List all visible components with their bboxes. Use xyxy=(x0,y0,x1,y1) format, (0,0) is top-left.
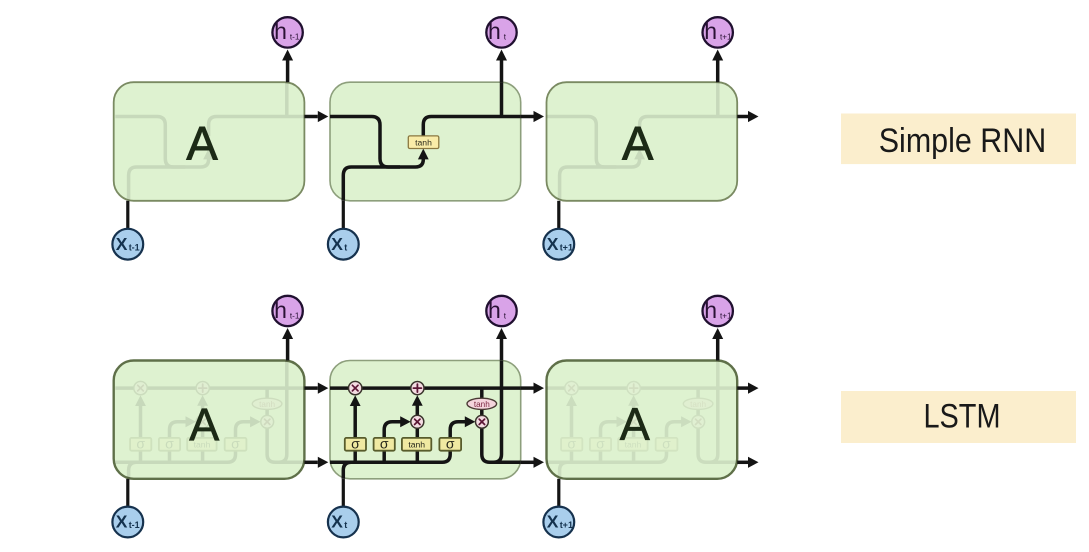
svg-text:t-1: t-1 xyxy=(129,242,140,252)
arrow cell1 to cell2 (top row) xyxy=(304,115,317,119)
svg-text:Simple RNN: Simple RNN xyxy=(879,122,1047,160)
arrow up to h(t-1) top xyxy=(286,61,290,83)
RNN interior wires and tanh unit xyxy=(330,82,521,201)
faded RNN wires inside right cell xyxy=(546,82,737,201)
svg-text:t-1: t-1 xyxy=(290,33,300,42)
svg-text:X: X xyxy=(547,234,559,254)
node h(t) bottom xyxy=(486,296,516,326)
svg-text:X: X xyxy=(547,512,559,532)
node h(t+1) top xyxy=(703,17,733,47)
svg-text:X: X xyxy=(331,512,343,532)
svg-text:t+1: t+1 xyxy=(560,242,573,252)
svg-text:A: A xyxy=(186,116,218,169)
svg-text:t-1: t-1 xyxy=(290,311,300,320)
faded LSTM interior inside right cell xyxy=(546,361,737,479)
arrow up to h(t+1) bottom xyxy=(716,339,720,361)
wire x(t-1) to cell bottom xyxy=(126,479,129,507)
svg-text:h: h xyxy=(274,297,287,323)
hidden-state arrow cell2 to cell3 xyxy=(521,461,534,465)
svg-text:t: t xyxy=(344,242,347,252)
node h(t-1) top xyxy=(272,17,302,47)
node x(t+1) top xyxy=(543,229,574,260)
node x(t-1) bottom xyxy=(112,507,143,538)
RNN cell box A (t-1) xyxy=(114,82,305,201)
LSTM cell box A (t+1) xyxy=(547,361,738,479)
arrow up to h(t) top xyxy=(500,61,504,83)
wire x(t+1) to cell bottom xyxy=(557,479,560,507)
svg-text:h: h xyxy=(274,18,287,44)
node x(t) bottom xyxy=(328,507,359,538)
svg-text:X: X xyxy=(331,234,343,254)
svg-text:t+1: t+1 xyxy=(560,520,573,530)
node x(t) top xyxy=(328,229,359,260)
node x(t+1) bottom xyxy=(543,507,574,538)
LSTM cell box A (t-1) xyxy=(114,361,305,479)
svg-text:t-1: t-1 xyxy=(129,520,140,530)
svg-text:A: A xyxy=(189,399,219,450)
wire x(t+1) to cell top xyxy=(557,201,560,229)
Simple RNN caption box xyxy=(841,114,1076,165)
cell-state arrow cell3 out xyxy=(737,386,748,390)
wire x(t) to cell top xyxy=(342,201,345,229)
arrow cell3 out (top row) xyxy=(737,115,748,119)
hidden-state arrow cell1 to cell2 xyxy=(304,461,317,465)
cell-state arrow cell2 to cell3 xyxy=(521,386,534,390)
svg-text:h: h xyxy=(704,297,717,323)
svg-text:A: A xyxy=(622,116,654,169)
RNN cell box A (t+1) xyxy=(547,82,738,201)
LSTM cell box (unfolded, middle) xyxy=(330,361,521,479)
svg-text:h: h xyxy=(488,18,501,44)
node h(t) top xyxy=(486,17,516,47)
svg-text:t: t xyxy=(344,520,347,530)
svg-text:X: X xyxy=(116,512,128,532)
LSTM caption box xyxy=(841,391,1076,443)
arrow cell2 to cell3 (top row) xyxy=(521,115,534,119)
svg-text:h: h xyxy=(488,297,501,323)
node x(t-1) top xyxy=(112,229,143,260)
arrow up to h(t) bottom xyxy=(500,339,504,361)
svg-text:X: X xyxy=(116,234,128,254)
RNN cell box (unfolded, middle) xyxy=(330,82,521,201)
faded LSTM interior inside left cell xyxy=(115,361,306,479)
node h(t-1) bottom xyxy=(272,296,302,326)
arrow up to h(t-1) bottom xyxy=(286,339,290,361)
faded RNN wires inside left cell xyxy=(115,82,306,201)
wire x(t) to cell bottom xyxy=(342,479,345,507)
svg-text:t+1: t+1 xyxy=(720,33,732,42)
wire x(t-1) to cell top xyxy=(126,201,129,229)
svg-text:t+1: t+1 xyxy=(720,311,732,320)
LSTM interior wires, gates and nodes xyxy=(330,361,521,479)
arrow up to h(t+1) top xyxy=(716,61,720,83)
node h(t+1) bottom xyxy=(703,296,733,326)
svg-text:A: A xyxy=(620,399,650,450)
cell-state arrow cell1 to cell2 xyxy=(304,386,317,390)
hidden-state arrow cell3 out xyxy=(737,461,748,465)
svg-text:h: h xyxy=(704,18,717,44)
svg-text:LSTM: LSTM xyxy=(924,398,1001,436)
